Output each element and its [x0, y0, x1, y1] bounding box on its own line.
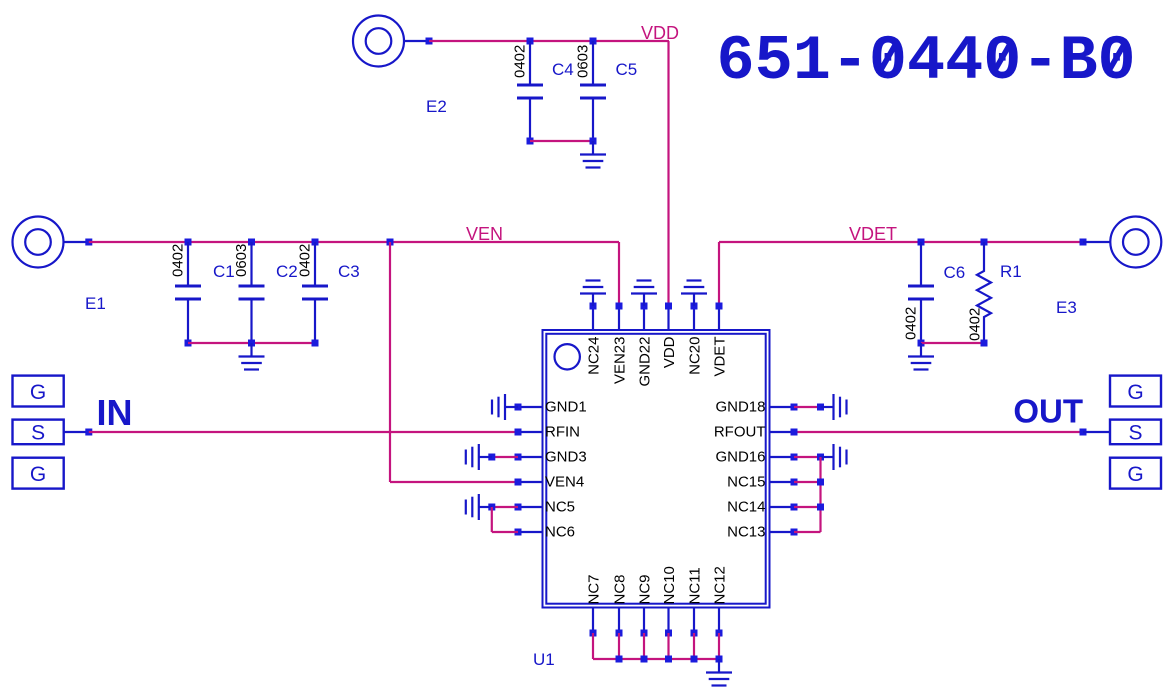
svg-text:C4: C4 [552, 60, 574, 79]
svg-text:VDD: VDD [661, 336, 678, 368]
connector E1 [13, 217, 64, 268]
wire GND3 link [492, 456, 518, 458]
capacitor C1 [175, 242, 201, 343]
node C2 bottom [248, 340, 255, 347]
svg-text:GND18: GND18 [715, 399, 765, 416]
connector E2 [353, 16, 404, 67]
svg-text:VDD: VDD [641, 23, 679, 43]
pin NC6 node [515, 529, 522, 536]
pin GND16 stub [770, 456, 795, 458]
pin NC10 stub [667, 608, 669, 634]
svg-text:NC13: NC13 [727, 524, 765, 541]
pin NC9 node [641, 630, 648, 637]
pin NC15 name [727, 474, 765, 491]
pin NC11 node [691, 630, 698, 637]
svg-text:E3: E3 [1056, 298, 1077, 317]
pin NC10 name [661, 566, 678, 604]
svg-text:NC24: NC24 [585, 337, 602, 375]
pad G lower left [13, 458, 64, 489]
wire NC11 drop [693, 633, 695, 659]
svg-text:S: S [31, 422, 45, 445]
wire C6-R1 bottom [921, 342, 984, 344]
ground at GND1 [492, 394, 518, 420]
wire E3 stub [1083, 241, 1110, 243]
capacitor C2 [239, 242, 265, 343]
pin RFOUT node [791, 429, 798, 436]
node NC5 link [488, 504, 495, 511]
wire NC14 link [794, 506, 821, 508]
node NC9 bus [641, 656, 648, 663]
svg-text:G: G [1127, 463, 1143, 486]
pin VEN4 name [545, 474, 584, 491]
svg-text:GND22: GND22 [636, 337, 653, 387]
pin RFIN stub [518, 431, 543, 433]
wire NC7 drop [592, 633, 594, 659]
connector E3 [1110, 217, 1161, 268]
pin VEN4 node [515, 479, 522, 486]
svg-text:G: G [30, 381, 46, 404]
wire VDET horizontal [719, 241, 1083, 243]
wire VEN vertical [389, 242, 391, 482]
ground below C5 [580, 141, 606, 168]
pin GND3 node [515, 454, 522, 461]
ground at GND18 [821, 394, 847, 420]
svg-text:VDET: VDET [849, 224, 897, 244]
pin GND18 node [791, 404, 798, 411]
pin NC5 stub [518, 506, 543, 508]
pin NC13 name [727, 524, 765, 541]
pin NC7 node [590, 630, 597, 637]
pin NC6 stub [518, 531, 543, 533]
pin RFIN name [545, 424, 580, 441]
pin GND22 stub [643, 306, 645, 330]
pin NC15 stub [770, 481, 795, 483]
pin VDET name [711, 337, 728, 377]
pin VEN23 stub [618, 306, 620, 330]
node C6 bottom [918, 340, 925, 347]
wire GND18 link [794, 406, 821, 408]
svg-text:E1: E1 [85, 294, 106, 313]
svg-text:C5: C5 [616, 60, 638, 79]
ground at GND3 [466, 444, 492, 470]
pin GND3 name [545, 449, 587, 466]
pin NC6 name [545, 524, 575, 541]
svg-text:NC7: NC7 [585, 574, 602, 604]
svg-text:C1: C1 [213, 262, 235, 281]
pad G upper right [1110, 376, 1161, 407]
label E3 [1056, 298, 1077, 317]
wire NC10 drop [667, 633, 669, 659]
wire VDET rise [718, 242, 720, 306]
node S right [1080, 429, 1087, 436]
ground below C6 [908, 343, 934, 370]
wire VDD horizontal [429, 40, 669, 42]
net label VDET [849, 224, 897, 244]
wire NC12 drop [718, 633, 720, 659]
svg-text:VDET: VDET [711, 337, 728, 377]
node E2 stub [426, 38, 433, 45]
svg-text:0402: 0402 [512, 45, 529, 78]
node C3 bottom [312, 340, 319, 347]
node GND16 link [817, 454, 824, 461]
node NC15 link [817, 479, 824, 486]
wire S right stub [1083, 431, 1110, 433]
label U1 [533, 650, 555, 669]
label C6 [944, 263, 966, 282]
pin NC14 name [727, 499, 765, 516]
node C5 top [590, 38, 597, 45]
value R1 0402 [967, 308, 984, 341]
net label VDD [641, 23, 679, 43]
pin GND16 node [791, 454, 798, 461]
svg-text:NC8: NC8 [611, 574, 628, 604]
pad S left [13, 420, 64, 445]
pin GND22 name [636, 337, 653, 387]
wire RFIN [89, 431, 518, 433]
svg-text:GND1: GND1 [545, 399, 587, 416]
label C3 [338, 262, 360, 281]
wire NC15 link [794, 481, 821, 483]
node R1 top [981, 239, 988, 246]
pin GND18 name [715, 399, 765, 416]
wire NC5 link [492, 506, 518, 508]
svg-text:VEN23: VEN23 [611, 337, 628, 385]
pin NC13 node [791, 529, 798, 536]
pin NC8 name [611, 574, 628, 604]
pin NC7 stub [592, 608, 594, 634]
value C4 0402 [512, 45, 529, 78]
svg-text:C2: C2 [276, 262, 298, 281]
pin NC5 node [515, 504, 522, 511]
node C3 top [312, 239, 319, 246]
pin NC20 node [691, 303, 698, 310]
capacitor C4 [517, 41, 543, 141]
pin VDET node [716, 303, 723, 310]
IC U1 body [543, 330, 770, 608]
ground at GND16 [821, 444, 847, 470]
node C5 bottom [590, 138, 597, 145]
label E1 [85, 294, 106, 313]
svg-text:U1: U1 [533, 650, 555, 669]
svg-text:NC12: NC12 [711, 566, 728, 604]
pin NC8 stub [618, 608, 620, 634]
svg-text:OUT: OUT [1013, 393, 1083, 430]
svg-text:C3: C3 [338, 262, 360, 281]
node GND3 link [488, 454, 495, 461]
label C5 [616, 60, 638, 79]
pin VEN23 node [616, 303, 623, 310]
wire C4-C5 bottom [530, 140, 593, 142]
net label VEN [466, 224, 503, 244]
pad G upper left [13, 376, 64, 407]
svg-text:NC6: NC6 [545, 524, 575, 541]
pin GND1 name [545, 399, 587, 416]
pad G lower right [1110, 458, 1161, 489]
pin VEN4 stub [518, 481, 543, 483]
wire VEN drop to VEN23 [618, 242, 620, 306]
svg-text:0603: 0603 [233, 244, 250, 277]
svg-text:0402: 0402 [903, 307, 920, 340]
pin GND3 stub [518, 456, 543, 458]
svg-text:NC15: NC15 [727, 474, 765, 491]
svg-text:VEN: VEN [466, 224, 503, 244]
pin NC10 node [665, 630, 672, 637]
wire S left stub [64, 431, 89, 433]
svg-text:RFIN: RFIN [545, 424, 580, 441]
value C5 0603 [575, 45, 592, 78]
wire E1 stub [64, 241, 89, 243]
wire RFOUT [794, 431, 1083, 433]
svg-text:GND16: GND16 [715, 449, 765, 466]
svg-text:G: G [30, 463, 46, 486]
node S left [85, 429, 92, 436]
node C6 top [918, 239, 925, 246]
svg-text:NC14: NC14 [727, 499, 765, 516]
capacitor C3 [302, 242, 328, 343]
node NC14 link [817, 504, 824, 511]
svg-text:0402: 0402 [297, 244, 314, 277]
wire NC13 link [794, 531, 821, 533]
wire NC5-NC6 drop [491, 507, 493, 532]
wire GND16-NC13 bus [819, 457, 821, 532]
capacitor C5 [580, 41, 606, 141]
pin NC14 node [791, 504, 798, 511]
pin NC9 name [636, 574, 653, 604]
IC U1 pin-1 circle [555, 344, 580, 369]
ground above GND22 [631, 281, 657, 307]
node C4 bottom [527, 138, 534, 145]
wire NC8 drop [618, 633, 620, 659]
ground above NC24 [580, 281, 606, 307]
node NC8 bus [616, 656, 623, 663]
pin NC12 stub [718, 608, 720, 634]
node C1 top [185, 239, 192, 246]
pin NC11 stub [693, 608, 695, 634]
pin VEN23 name [611, 337, 628, 385]
value C3 0402 [297, 244, 314, 277]
pin GND1 node [515, 404, 522, 411]
pin NC20 name [686, 337, 703, 375]
node NC11 bus [691, 656, 698, 663]
wire VDD vertical [667, 41, 669, 306]
label C1 [213, 262, 235, 281]
pin NC5 name [545, 499, 575, 516]
label OUT [1013, 393, 1083, 430]
pad S right [1110, 420, 1161, 445]
svg-text:0402: 0402 [170, 244, 187, 277]
label C4 [552, 60, 574, 79]
svg-text:0402: 0402 [967, 308, 984, 341]
node R1 bottom [981, 340, 988, 347]
label E2 [426, 97, 447, 116]
svg-text:NC9: NC9 [636, 574, 653, 604]
svg-text:NC20: NC20 [686, 337, 703, 375]
svg-text:0603: 0603 [575, 45, 592, 78]
wire VEN horizontal [89, 241, 619, 243]
svg-text:NC10: NC10 [661, 566, 678, 604]
label C2 [276, 262, 298, 281]
resistor R1 [977, 242, 991, 343]
svg-text:G: G [1127, 381, 1143, 404]
svg-text:RFOUT: RFOUT [714, 424, 766, 441]
pin GND18 stub [770, 406, 795, 408]
wire NC9 drop [643, 633, 645, 659]
ground below NC12 [706, 659, 732, 686]
pin NC13 stub [770, 531, 795, 533]
node NC10 bus [665, 656, 672, 663]
svg-text:NC11: NC11 [686, 567, 703, 604]
ground above NC20 [681, 281, 707, 307]
title 651-0440-B0 [717, 26, 1136, 98]
pin VDD node [665, 303, 672, 310]
pin VDET stub [718, 306, 720, 330]
label IN [97, 392, 133, 433]
wire GND16 link [794, 456, 821, 458]
node E3 stub [1080, 239, 1087, 246]
node NC12 bus [716, 656, 723, 663]
node C1 bottom [185, 340, 192, 347]
wire NC bus [593, 658, 719, 660]
pin RFIN node [515, 429, 522, 436]
capacitor C6 [908, 242, 934, 343]
pin NC20 stub [693, 306, 695, 330]
svg-text:VEN4: VEN4 [545, 474, 584, 491]
svg-text:R1: R1 [1000, 262, 1022, 281]
pin NC12 node [716, 630, 723, 637]
pin NC24 name [585, 337, 602, 375]
svg-text:651-0440-B0: 651-0440-B0 [717, 26, 1136, 98]
svg-text:S: S [1128, 422, 1142, 445]
node C2 top [248, 239, 255, 246]
pin NC7 name [585, 574, 602, 604]
value C6 0402 [903, 307, 920, 340]
pin NC11 name [686, 567, 703, 604]
pin NC12 name [711, 566, 728, 604]
pin GND22 node [641, 303, 648, 310]
pin NC9 stub [643, 608, 645, 634]
ground at NC5 [466, 494, 492, 520]
pin NC24 stub [592, 306, 594, 330]
pin RFOUT name [714, 424, 766, 441]
pin VDD stub [667, 306, 669, 330]
wire C1-C3 bottom [188, 342, 315, 344]
pin NC24 node [590, 303, 597, 310]
pin GND16 name [715, 449, 765, 466]
node VEN tap [387, 239, 394, 246]
value C2 0603 [233, 244, 250, 277]
node E1 stub [85, 239, 92, 246]
ground below C2 [239, 343, 265, 370]
pin NC15 node [791, 479, 798, 486]
wire E2 stub [404, 40, 429, 42]
pin VDD name [661, 336, 678, 368]
pin GND1 stub [518, 406, 543, 408]
svg-text:C6: C6 [944, 263, 966, 282]
pin RFOUT stub [770, 431, 795, 433]
node GND18 link [817, 404, 824, 411]
svg-text:E2: E2 [426, 97, 447, 116]
svg-text:NC5: NC5 [545, 499, 575, 516]
svg-text:GND3: GND3 [545, 449, 587, 466]
wire NC6 link [492, 531, 518, 533]
wire VEN to VEN4 [390, 481, 518, 483]
label R1 [1000, 262, 1022, 281]
node C4 top [527, 38, 534, 45]
pin NC14 stub [770, 506, 795, 508]
value C1 0402 [170, 244, 187, 277]
pin NC8 node [616, 630, 623, 637]
svg-text:IN: IN [97, 392, 133, 433]
